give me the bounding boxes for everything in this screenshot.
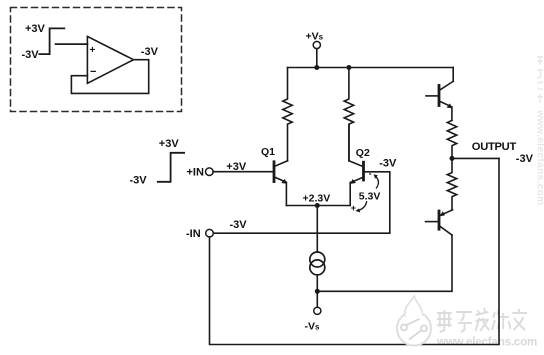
node rail/+Vs junction — [314, 65, 319, 70]
wire inset input to op-amp — [56, 43, 88, 45]
svg-text:www.elecfans.com: www.elecfans.com — [436, 336, 537, 349]
svg-text:-3V: -3V — [379, 158, 397, 170]
svg-text:+2.3V: +2.3V — [303, 192, 331, 204]
wire +Vs to rail — [316, 49, 318, 68]
svg-text:www.elecfans.com: www.elecfans.com — [535, 109, 544, 206]
wire +IN to Q1 base, labelled +3V — [213, 171, 274, 173]
svg-text:OUTPUT: OUTPUT — [472, 141, 517, 153]
wire Q2 emitter down — [349, 182, 351, 205]
node rail/R2 junction — [346, 65, 351, 70]
svg-text:+: + — [351, 203, 356, 213]
wire rail to Q3 collector — [452, 68, 454, 82]
wire Q1 emitter down — [285, 182, 287, 205]
svg-text:+3V: +3V — [25, 23, 46, 35]
resistor R3 — [447, 120, 456, 158]
svg-text:+3V: +3V — [159, 138, 180, 150]
inset input step waveform — [39, 28, 64, 54]
svg-text:-Vs: -Vs — [305, 321, 321, 333]
svg-text:-: - — [369, 168, 372, 178]
wire Q2 collector up to R2 — [348, 125, 350, 161]
svg-text:Q1: Q1 — [261, 146, 275, 158]
input step waveform 2 — [158, 153, 184, 182]
wire inset feedback loop — [71, 60, 148, 94]
svg-text:5.3V: 5.3V — [359, 190, 381, 202]
svg-text:-IN: -IN — [186, 228, 201, 240]
svg-text:−: − — [90, 66, 96, 78]
svg-text:-3V: -3V — [141, 46, 159, 58]
wire feedback OUTPUT to -IN — [210, 158, 500, 344]
svg-text:+Vs: +Vs — [306, 30, 324, 42]
wire current source to bottom node — [316, 275, 318, 291]
svg-text:-3V: -3V — [130, 175, 148, 187]
wire Q3 emitter to R3 — [451, 107, 453, 120]
op-amp U1 — [87, 36, 133, 83]
node +2.3V emitter rail — [286, 205, 350, 207]
current source I1 — [310, 252, 325, 267]
wire OUTPUT to feedback corner — [452, 157, 499, 159]
wire bottom node to Q4 collector — [317, 235, 452, 291]
transistor Q3 (top right NPN) — [438, 85, 441, 105]
transistor Q4 (bottom right PNP) — [438, 211, 441, 229]
node current-source bottom junction — [315, 289, 320, 294]
svg-text:Q2: Q2 — [356, 147, 370, 159]
inset dashed box — [11, 8, 182, 112]
resistor R2 — [344, 68, 353, 161]
svg-text:+3V: +3V — [226, 161, 247, 173]
wire bottom node to -Vs — [316, 291, 318, 307]
resistor R4 — [447, 158, 456, 209]
wire top supply rail — [288, 67, 454, 69]
svg-text:+IN: +IN — [187, 167, 204, 179]
svg-text:-3V: -3V — [22, 49, 40, 61]
node OUTPUT — [450, 156, 455, 161]
svg-text:-3V: -3V — [516, 153, 534, 165]
svg-text:-3V: -3V — [230, 219, 248, 231]
svg-text:+: + — [90, 45, 96, 56]
resistor R1 — [283, 68, 292, 161]
wire -IN to Q2 base loop, labelled -3V — [213, 172, 389, 233]
power -Vs terminal — [314, 307, 321, 314]
wire +2.3V node down to current source — [316, 206, 318, 253]
